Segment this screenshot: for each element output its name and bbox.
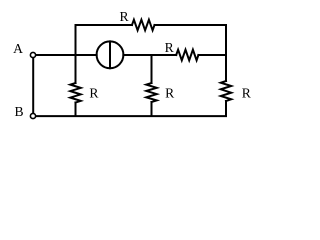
- svg-text:A: A: [13, 41, 23, 56]
- wire middle branch upper lead: [151, 55, 153, 83]
- terminal B: [30, 113, 35, 118]
- current source U1: [97, 41, 124, 68]
- wire left branch lower lead: [75, 103, 77, 117]
- resistor R5 right branch: [221, 81, 231, 101]
- svg-text:R: R: [120, 9, 130, 24]
- svg-text:B: B: [15, 104, 24, 119]
- svg-text:R: R: [165, 40, 175, 55]
- wire middle branch lower lead: [151, 102, 153, 116]
- wire A row left: [36, 54, 96, 56]
- wire right vertical upper: [225, 25, 227, 81]
- resistor R2 row2: [176, 50, 198, 61]
- resistor R4 middle branch: [146, 83, 156, 102]
- svg-text:R: R: [242, 86, 252, 101]
- wire top loop left vertical: [75, 25, 77, 55]
- svg-text:R: R: [89, 86, 99, 101]
- wire left branch upper lead: [75, 55, 77, 83]
- resistor R1 top: [132, 20, 155, 31]
- wire bottom: [36, 115, 226, 117]
- wire row2 to right vertical: [198, 54, 226, 56]
- svg-text:R: R: [165, 86, 175, 101]
- wire left vertical A to B: [32, 58, 34, 113]
- terminal A: [30, 52, 35, 57]
- wire top right: [155, 24, 227, 26]
- wire top left: [76, 24, 133, 26]
- resistor R3 left branch: [70, 83, 80, 103]
- wire right vertical lower: [225, 101, 227, 116]
- wire A row right of source: [123, 54, 176, 56]
